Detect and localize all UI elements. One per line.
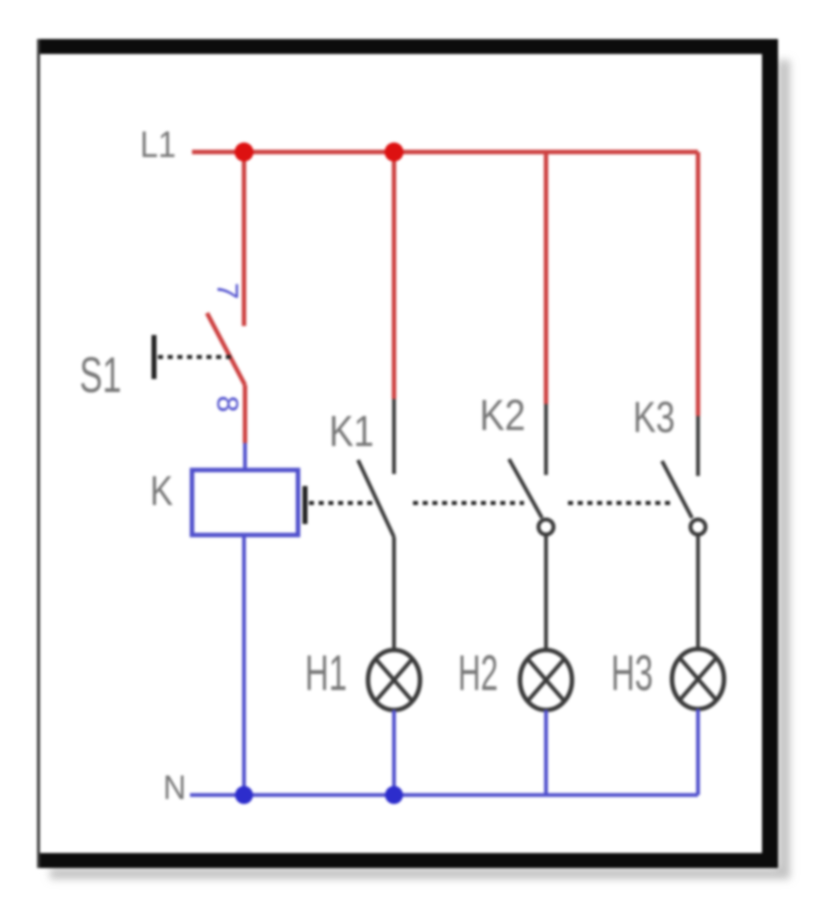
- svg-text:K1: K1: [329, 407, 374, 456]
- svg-text:L1: L1: [140, 124, 176, 165]
- svg-text:7: 7: [211, 283, 244, 300]
- svg-text:K2: K2: [480, 391, 526, 440]
- svg-text:H1: H1: [305, 645, 347, 701]
- svg-text:K: K: [150, 467, 173, 514]
- svg-text:N: N: [163, 769, 186, 807]
- svg-text:H2: H2: [458, 645, 498, 701]
- svg-text:H3: H3: [611, 645, 653, 701]
- svg-text:S1: S1: [80, 347, 122, 403]
- svg-text:8: 8: [211, 396, 244, 413]
- svg-text:K3: K3: [633, 393, 675, 442]
